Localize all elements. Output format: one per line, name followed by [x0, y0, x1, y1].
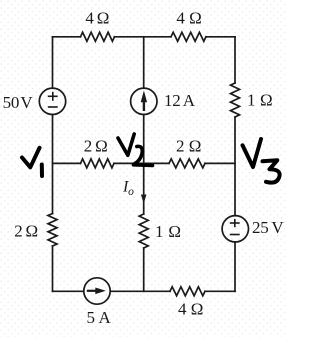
wire top-middle horizontal	[115, 36, 172, 38]
svg-text:4 Ω: 4 Ω	[85, 9, 109, 28]
node V2 handwritten	[118, 134, 153, 166]
svg-text:2 Ω: 2 Ω	[14, 221, 38, 240]
voltage source 25V circle	[222, 216, 248, 242]
wire right upper vertical	[234, 37, 236, 83]
svg-text:12 A: 12 A	[164, 91, 196, 110]
node V3 handwritten	[243, 139, 280, 183]
wire bottom-middle horizontal	[110, 290, 170, 292]
wire bottom-left horizontal	[53, 290, 84, 292]
resistor 2ohm middle-left	[81, 159, 115, 168]
voltage source 50V minus sign	[49, 106, 57, 108]
wire right lower vertical	[234, 242, 236, 291]
voltage source 25V plus sign	[231, 220, 239, 227]
wire right middle vertical	[234, 117, 236, 216]
resistor 4ohm bottom	[170, 287, 205, 296]
current arrow Io head	[141, 195, 147, 204]
svg-text:50 V: 50 V	[3, 93, 34, 112]
resistor 1ohm center	[139, 214, 148, 248]
resistor 4ohm top-right	[171, 32, 206, 41]
current source 12A arrow	[141, 91, 147, 112]
wire left middle vertical	[52, 114, 54, 213]
svg-text:1 Ω: 1 Ω	[155, 222, 182, 241]
svg-text:25 V: 25 V	[252, 218, 284, 237]
voltage source 50V plus sign	[49, 93, 57, 100]
wire center upper vertical	[143, 37, 145, 88]
wire top-right horizontal	[206, 36, 235, 38]
wire center Io vertical	[143, 163, 145, 214]
resistor 1ohm right	[231, 83, 240, 117]
svg-text:5 A: 5 A	[87, 308, 112, 327]
wire left lower vertical	[52, 246, 54, 291]
wire top-left horizontal	[53, 36, 81, 38]
wire bottom-right horizontal	[205, 290, 235, 292]
svg-text:4 Ω: 4 Ω	[178, 300, 204, 319]
wire middle-center horizontal	[114, 162, 169, 164]
svg-text:1 Ω: 1 Ω	[247, 91, 273, 110]
wire middle-right horizontal	[205, 162, 235, 164]
current source 5A arrow	[87, 288, 106, 295]
wire middle-left horizontal	[53, 162, 81, 164]
node V1 handwritten	[22, 148, 42, 176]
voltage source 25V minus sign	[231, 234, 239, 236]
current source 12A circle	[131, 88, 157, 114]
voltage source 50V circle	[39, 88, 65, 114]
wire center middle vertical	[143, 114, 145, 163]
svg-text:2 Ω: 2 Ω	[176, 137, 202, 156]
svg-text:2 Ω: 2 Ω	[84, 137, 108, 156]
resistor 2ohm left	[48, 214, 57, 247]
svg-text:4 Ω: 4 Ω	[176, 9, 202, 28]
wire left upper vertical	[52, 37, 54, 88]
resistor 4ohm top-left	[81, 32, 115, 41]
resistor 2ohm middle-right	[169, 159, 205, 168]
wire center lower vertical	[143, 248, 145, 291]
current source 5A circle	[84, 278, 110, 304]
